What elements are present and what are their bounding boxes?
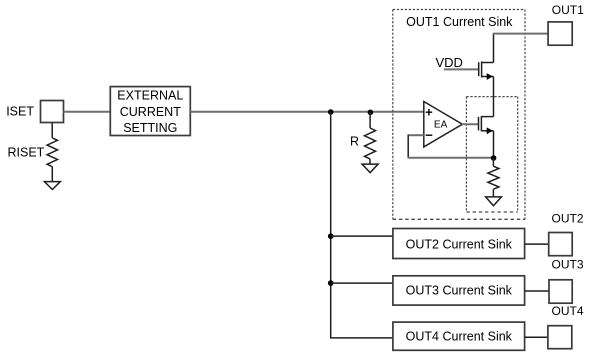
wire M1 source to M2 drain	[493, 77, 495, 117]
wire op-amp output to M2 gate	[462, 123, 478, 125]
transistor M1	[479, 61, 494, 80]
svg-text:OUT1: OUT1	[552, 3, 584, 17]
ground under RISET	[44, 182, 60, 190]
svg-text:VDD: VDD	[436, 55, 463, 70]
wire OUT3 box to pad	[525, 290, 549, 292]
wire OUT4 box to pad	[525, 336, 548, 338]
ground under R	[362, 164, 378, 173]
ground under sense resistor	[486, 197, 502, 206]
pin pad OUT1	[548, 22, 572, 45]
svg-text:EXTERNAL: EXTERNAL	[117, 88, 183, 102]
pin pad ISET	[41, 101, 64, 123]
svg-text:OUT1 Current Sink: OUT1 Current Sink	[406, 15, 513, 29]
svg-text:OUT3 Current Sink: OUT3 Current Sink	[406, 284, 513, 298]
transistor M2	[479, 116, 494, 134]
resistor sense	[488, 166, 499, 189]
wire VDD gate	[444, 68, 478, 70]
wire ISET pad to external box	[64, 111, 111, 113]
wire ISET pad to RISET	[51, 123, 53, 138]
pin pad OUT3	[549, 280, 572, 303]
pin pad OUT4	[548, 326, 572, 349]
resistor R	[365, 128, 376, 159]
wire branch to OUT2 box	[331, 235, 393, 237]
wire OUT2 box to pad	[525, 243, 549, 245]
junction OUT2 branch	[328, 233, 334, 239]
junction OUT3 branch	[328, 280, 334, 286]
wire branch to OUT3 box	[331, 282, 393, 284]
junction R node	[368, 110, 374, 116]
svg-text:OUT4: OUT4	[552, 304, 584, 318]
block EXTERNAL CURRENT SETTING	[110, 87, 190, 136]
block OUT4 Current Sink	[393, 322, 525, 350]
svg-text:OUT2 Current Sink: OUT2 Current Sink	[406, 238, 513, 252]
wire main: external box to op-amp + input	[190, 111, 423, 113]
wire RISET to ground	[51, 167, 53, 182]
wire trunk vertical	[331, 112, 393, 338]
resistor RISET	[47, 138, 57, 167]
pin pad OUT2	[549, 233, 573, 256]
svg-text:ISET: ISET	[6, 105, 34, 119]
svg-text:OUT4 Current Sink: OUT4 Current Sink	[406, 329, 513, 343]
svg-text:EA: EA	[434, 119, 448, 130]
wire M2 source to node	[493, 131, 495, 158]
junction source node	[491, 155, 497, 161]
wire feedback loop	[409, 134, 424, 136]
dashed boundary OUT1 Current Sink	[393, 10, 525, 220]
svg-text:RISET: RISET	[8, 146, 45, 160]
wire M1 drain to OUT1 corner	[493, 34, 495, 63]
svg-text:OUT3: OUT3	[552, 258, 584, 272]
op-amp EA	[424, 102, 463, 147]
svg-text:SETTING: SETTING	[123, 121, 177, 135]
block OUT2 Current Sink	[393, 229, 525, 259]
block OUT3 Current Sink	[393, 276, 525, 305]
wire sense resistor to ground	[492, 189, 494, 197]
wire R top	[369, 112, 371, 128]
wire node to sense resistor	[492, 158, 494, 166]
junction trunk node	[328, 109, 334, 115]
wire corner to OUT1 pad	[493, 33, 548, 35]
svg-text:R: R	[350, 134, 359, 148]
wire R to ground	[369, 159, 371, 164]
svg-text:CURRENT: CURRENT	[120, 105, 181, 119]
dashed boundary inner sink cell	[466, 97, 517, 212]
svg-text:OUT2: OUT2	[552, 212, 584, 226]
